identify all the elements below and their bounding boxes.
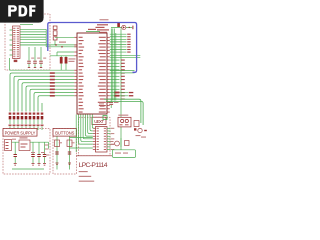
button exit wires <box>70 137 93 148</box>
PDF badge <box>0 0 45 24</box>
svg-text:BUTTONS: BUTTONS <box>55 130 74 135</box>
crystal Q1 with caps <box>53 26 74 45</box>
long wire rows <box>110 55 141 73</box>
IC U1 right pin stubs <box>107 37 110 112</box>
POWER SUPPLY label <box>3 129 37 137</box>
wire rows right of U1 lower <box>110 60 125 100</box>
nested wire bus to LEDs <box>10 73 74 111</box>
green plane marker <box>103 116 107 120</box>
junction dots <box>55 44 57 46</box>
capacitors C1 C2 C3 <box>27 47 34 68</box>
UEXT wires left nested <box>79 115 94 145</box>
op IC U1 LPC1114 <box>77 33 107 114</box>
capacitor C10 <box>109 99 118 108</box>
filter capacitors <box>14 155 17 166</box>
title block divider <box>76 155 112 157</box>
wire bundle from J1 <box>20 25 77 47</box>
power input cluster <box>96 19 120 33</box>
ISP header J4 <box>118 115 131 127</box>
UEXT connector J3 <box>96 127 108 153</box>
UEXT section box <box>79 117 111 156</box>
misc labels <box>12 139 16 140</box>
svg-text:POWER SUPPLY: POWER SUPPLY <box>5 130 36 135</box>
vertical wire bundle right of U1 <box>111 29 121 150</box>
UEXT label <box>92 117 106 124</box>
svg-text:LPC-P1114: LPC-P1114 <box>79 162 108 169</box>
long wires mid right <box>120 93 129 96</box>
revision text lines <box>79 171 88 172</box>
UEXT wires right <box>107 128 114 150</box>
power supply wires <box>12 142 49 169</box>
transistor Q2 cluster <box>134 121 147 138</box>
net labels mid rows <box>115 92 120 94</box>
capacitors C5 C6 <box>10 52 76 70</box>
J1 bottom label <box>14 60 18 62</box>
net labels on bus <box>50 72 55 96</box>
UEXT left pin stubs <box>93 128 96 149</box>
wire left of UEXT <box>75 115 77 153</box>
connector J1 <box>13 26 21 59</box>
green bus pair to lower right <box>104 99 143 125</box>
green outline box <box>113 150 136 158</box>
J1 left stubs <box>10 30 13 70</box>
button switch <box>55 137 63 170</box>
wire rows right of U1 upper <box>110 34 131 53</box>
bus labels <box>99 103 104 104</box>
regulator U2 <box>19 137 30 150</box>
IC U1 left pin stubs <box>74 37 77 96</box>
LED + resistor stacks <box>9 113 12 131</box>
button switch <box>67 137 75 170</box>
transistor Q3 <box>111 138 130 147</box>
power jack J2 <box>5 140 12 151</box>
blue annotation highlight <box>48 23 137 73</box>
wire above U1 <box>86 31 100 33</box>
dashed section border (CRYSTAL/JTAG group) <box>5 14 50 70</box>
BUTTONS section box <box>53 129 77 175</box>
diode D1 <box>111 25 133 29</box>
BUTTONS label <box>53 129 77 137</box>
POWER SUPPLY section box <box>3 129 50 175</box>
